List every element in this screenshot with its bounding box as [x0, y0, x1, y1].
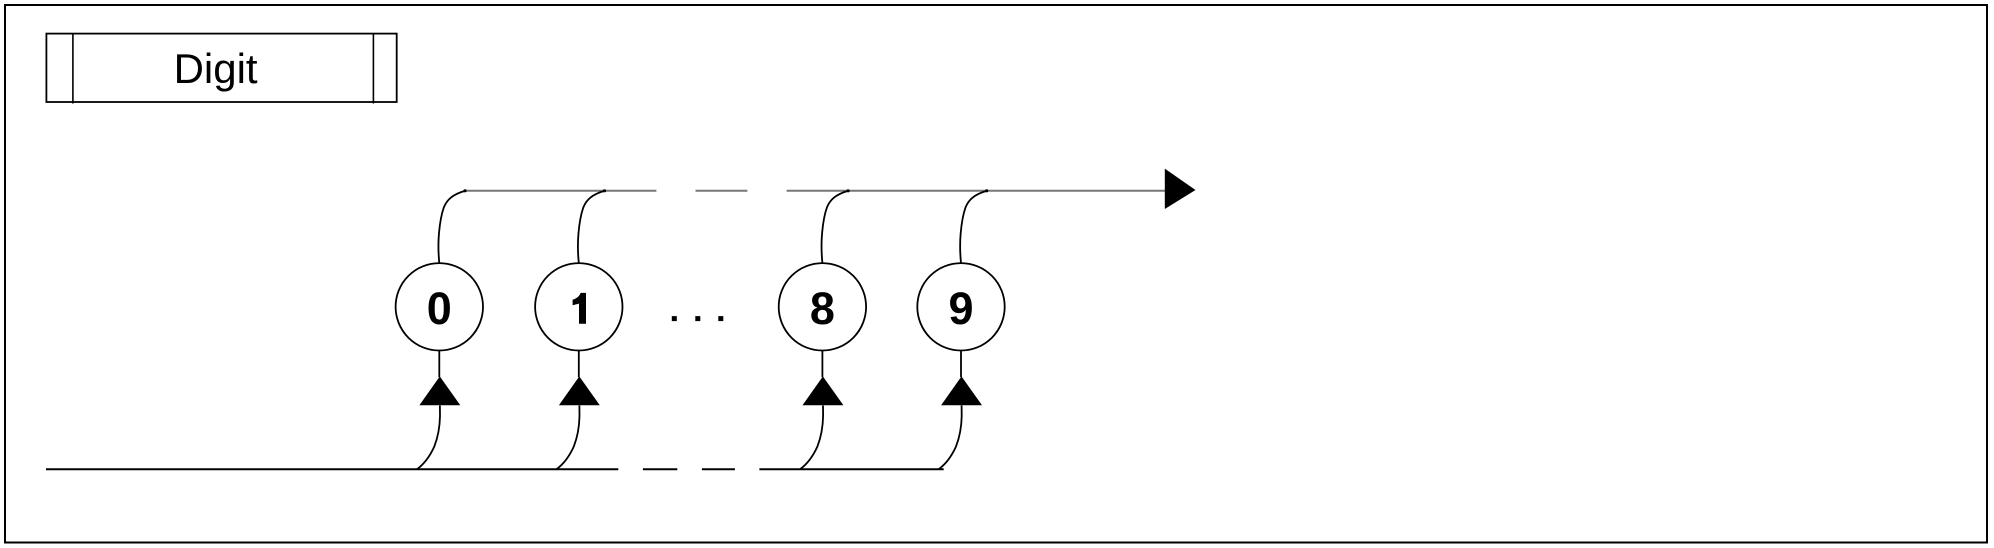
svg-text:8: 8 — [810, 283, 835, 334]
svg-text:0: 0 — [427, 283, 452, 334]
svg-text:9: 9 — [948, 283, 973, 334]
svg-text:Digit: Digit — [174, 45, 258, 92]
